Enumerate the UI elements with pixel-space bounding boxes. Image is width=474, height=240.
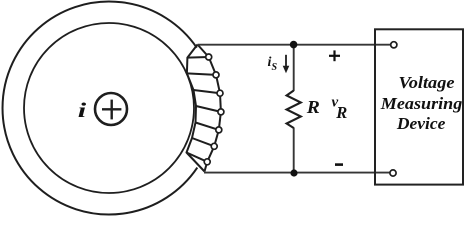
svg-text:R: R <box>335 103 347 122</box>
svg-text:S: S <box>272 62 278 73</box>
svg-text:Voltage: Voltage <box>399 73 455 92</box>
svg-text:R: R <box>306 97 320 117</box>
svg-text:Measuring: Measuring <box>380 94 463 113</box>
svg-text:i: i <box>78 98 87 122</box>
svg-text:Device: Device <box>396 114 446 133</box>
